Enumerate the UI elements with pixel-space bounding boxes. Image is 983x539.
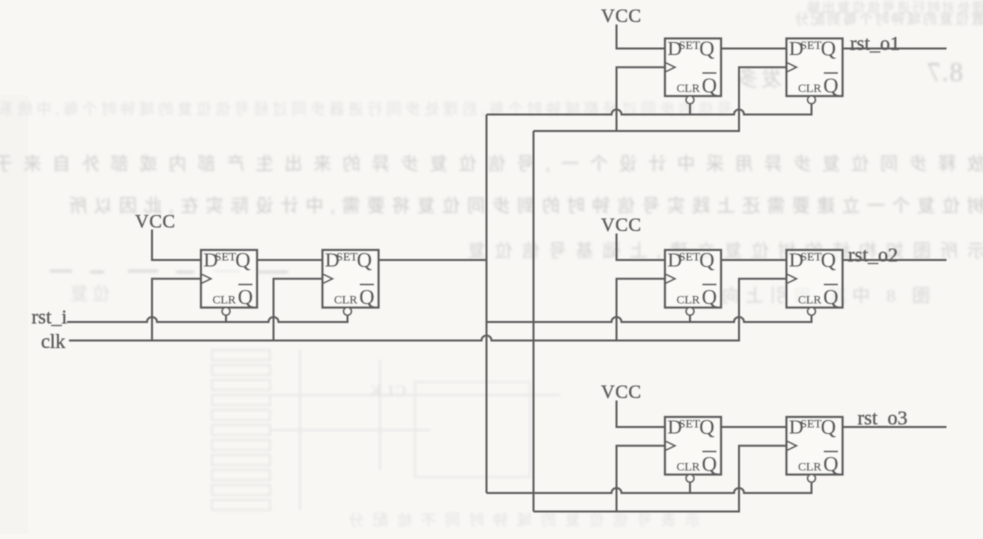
bleed-through heading 8.7: [926, 57, 963, 87]
wire U5 CLR drop: [689, 316, 691, 323]
paper left-edge scan striping: [0, 95, 28, 534]
wire U3 CLR drop: [689, 104, 691, 115]
bleed-through text row C: [62, 196, 983, 216]
bleed-through text row D: [459, 241, 983, 261]
bleed-through text row top-right 1: [805, 0, 983, 15]
flip-flop U7: [665, 415, 721, 482]
wire clk branch to clock of U1: [152, 279, 201, 341]
flip-flop U3: [665, 37, 721, 104]
wire top reset line to CLR of U3 and U4: [487, 104, 812, 115]
wire clk to clock of U5: [617, 279, 666, 341]
flip-flop U1: [201, 248, 257, 315]
svg-text:rst_i: rst_i: [32, 307, 68, 329]
svg-text:CLK: CLK: [368, 383, 406, 400]
svg-text:发多: 发多: [734, 67, 782, 91]
wire VCC to D of U5: [617, 234, 666, 261]
bleed-through text row A: [0, 100, 732, 118]
wire U1 Q to U2 D: [257, 259, 323, 261]
bleed-through figure ladder: [212, 350, 270, 510]
wire U7 Q to U8 D: [721, 426, 787, 428]
svg-text:示表号信位复的域钟时同不给配分: 示表号信位复的域钟时同不给配分: [340, 511, 700, 529]
wire middle reset line to CLR of U5 and U6: [487, 316, 812, 323]
wire clk to clock of U3: [617, 67, 666, 131]
wire bottom clk line to clock of U8: [534, 446, 787, 512]
wire clk branch to clock of U2: [274, 279, 323, 341]
flip-flop U2: [323, 248, 379, 315]
wire clk main line: [69, 279, 787, 341]
svg-text:VCC: VCC: [135, 212, 176, 233]
wire rst_o3 output: [843, 426, 947, 428]
svg-text:rst_o2: rst_o2: [848, 245, 898, 267]
svg-text:rst_o1: rst_o1: [850, 33, 900, 55]
flip-flop U8: [787, 415, 843, 482]
wire VCC to D of U1: [152, 230, 201, 261]
wire VCC to D of U3: [617, 25, 666, 49]
wire U7 CLR drop: [689, 483, 691, 494]
wire rst_o1 output: [843, 48, 947, 50]
bleed-through blob: [734, 67, 782, 91]
bleed-through text row top-right 2: [793, 11, 983, 28]
flip-flop U4: [787, 37, 843, 104]
bleed-through dash row: [50, 271, 288, 272]
wire U5 Q to U6 D: [721, 259, 787, 261]
bleed-through blob left: [66, 284, 110, 304]
svg-text:VCC: VCC: [601, 215, 642, 236]
bleed-through figure box: [415, 382, 530, 477]
wire U2 Q to reset trunk: [379, 259, 487, 261]
bleed-through bottom band: [340, 511, 700, 529]
wire top clk line to clock of U4: [534, 67, 787, 131]
svg-text:8.7: 8.7: [926, 57, 963, 87]
flip-flop U6: [787, 248, 843, 315]
flip-flop U5: [665, 248, 721, 315]
wire U3 Q to U4 D: [721, 48, 787, 50]
svg-text:放释步同位复步异用采中计设个一,号信位复步异的来出生产部内或: 放释步同位复步异用采中计设个一,号信位复步异的来出生产部内或部外自来于对: [0, 154, 983, 174]
svg-text:置位复的域钟时个每到配分: 置位复的域钟时个每到配分: [793, 11, 983, 28]
wire U1 CLR drop: [225, 316, 227, 323]
wire reset trunk vertical: [486, 115, 488, 494]
wire clk to clock of U7: [617, 446, 666, 512]
bleed-through text row E: [716, 286, 931, 306]
wire clk trunk vertical: [533, 131, 535, 512]
svg-text:VCC: VCC: [601, 382, 642, 403]
svg-text:VCC: VCC: [601, 6, 642, 27]
bleed-through figure text: [368, 383, 406, 400]
bleed-through text row B: [0, 154, 983, 174]
wire rst_i line to CLR of U1 and U2: [67, 316, 348, 323]
bleed-through figure lines: [270, 350, 560, 510]
wire VCC to D of U7: [617, 401, 666, 428]
svg-text:位复: 位复: [66, 284, 110, 304]
wire rst_o2 output: [843, 259, 947, 261]
wire bottom reset line to CLR of U7 and U8: [487, 483, 812, 494]
svg-text:clk: clk: [41, 331, 65, 353]
svg-text:树位复个一立建要需还上践实号信钟时的到步同位复将要需,中计设: 树位复个一立建要需还上践实号信钟时的到步同位复将要需,中计设际实在,此因以所: [62, 196, 983, 216]
